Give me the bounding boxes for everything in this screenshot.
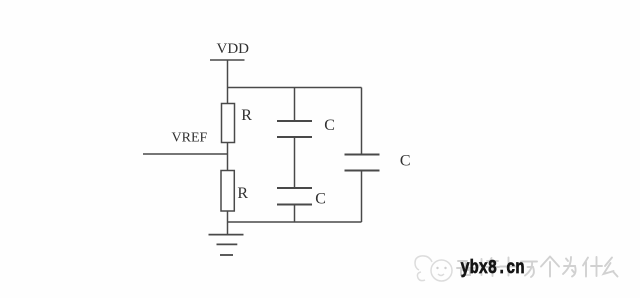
wire C3 to bottom rail (361, 171, 363, 223)
watermark logo (415, 256, 452, 281)
svg-text:ybx8.cn: ybx8.cn (461, 257, 525, 279)
svg-text:VDD: VDD (217, 41, 250, 57)
power VDD rail (210, 59, 245, 61)
capacitor C3 (345, 155, 380, 171)
wire bottom rail (228, 221, 362, 223)
wire VDD to R1 (227, 60, 229, 104)
svg-text:C: C (315, 191, 326, 208)
resistor R2 (221, 171, 234, 212)
capacitor C2 (277, 188, 312, 205)
wire node VREF (143, 153, 228, 155)
wire R1 to R2 (227, 143, 229, 171)
ground (209, 235, 244, 255)
wire top rail to C1 (294, 88, 296, 122)
resistor R1 (222, 104, 235, 143)
svg-text:R: R (241, 107, 252, 124)
watermark faint text (457, 257, 618, 278)
svg-text:C: C (324, 117, 335, 134)
svg-text:C: C (400, 153, 411, 170)
svg-text:VREF: VREF (172, 131, 208, 146)
wire C1 to C2 (294, 137, 296, 188)
wire C2 to bottom rail (294, 205, 296, 223)
wire top rail to C3 (361, 88, 363, 155)
wire R2 to ground (227, 211, 229, 235)
svg-text:R: R (237, 185, 248, 202)
capacitor C1 (277, 121, 312, 137)
wire top rail (228, 87, 362, 89)
